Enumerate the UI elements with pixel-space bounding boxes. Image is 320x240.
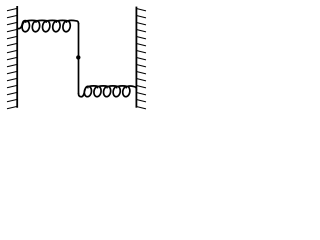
coil loop crossing knots (top coil): [26, 21, 67, 23]
junction node (mass point) on rod: [76, 55, 80, 59]
left wall support line: [16, 6, 18, 108]
connecting rod (vertical wire between the two springs): [78, 24, 80, 94]
right wall hatching: [136, 9, 146, 109]
spring coil 2 (bottom spring, rod to right wall): [79, 86, 137, 97]
background: [0, 0, 156, 119]
coil loop crossing knots (bottom coil): [88, 87, 126, 89]
left wall hatching: [7, 8, 17, 108]
right wall support line: [135, 7, 137, 108]
spring coil 1 (top spring, left wall to rod): [17, 20, 78, 31]
